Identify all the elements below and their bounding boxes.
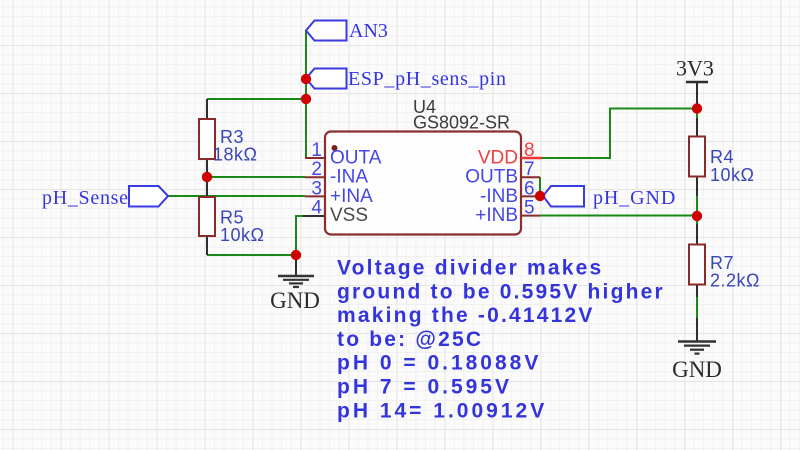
wire divider node segments (green): [696, 196, 698, 318]
svg-text:ESP_pH_sens_pin: ESP_pH_sens_pin: [348, 68, 507, 90]
svg-text:pH 7 = 0.595V: pH 7 = 0.595V: [337, 376, 512, 399]
svg-text:pH 0 = 0.18088V: pH 0 = 0.18088V: [337, 352, 541, 375]
pin number 1: [311, 140, 322, 161]
pin name VSS: [330, 205, 368, 226]
svg-text:ground to be 0.595V higher: ground to be 0.595V higher: [337, 280, 665, 303]
svg-text:GS8092-SR: GS8092-SR: [413, 113, 510, 133]
pin 6 stub: [521, 195, 540, 197]
pin number 5: [524, 198, 535, 219]
svg-text:+INB: +INB: [475, 205, 518, 226]
svg-text:2.2kΩ: 2.2kΩ: [710, 271, 760, 291]
svg-text:OUTB: OUTB: [465, 167, 518, 188]
wire black stub R3 bottom to node: [206, 159, 208, 177]
wire AN3 vertical drop to pin 1: [306, 31, 309, 158]
net flag pH_GND: [543, 186, 676, 209]
svg-text:AN3: AN3: [349, 20, 388, 42]
wire R3 top to AN3 net: [207, 98, 306, 100]
op-amp U4 pin-1 marker dot: [332, 145, 338, 151]
svg-text:-INB: -INB: [480, 186, 518, 207]
net flag AN3: [306, 20, 388, 42]
svg-text:GND: GND: [672, 357, 722, 382]
svg-text:10kΩ: 10kΩ: [220, 225, 264, 245]
svg-text:5: 5: [524, 198, 535, 219]
pin name +INB: [475, 205, 518, 226]
wire pH_Sense to pin 3: [168, 195, 305, 197]
svg-text:VSS: VSS: [330, 205, 368, 226]
svg-text:making the -0.41412V: making the -0.41412V: [337, 304, 595, 327]
junction 3V3 node: [692, 103, 702, 113]
svg-text:4: 4: [311, 198, 322, 219]
op-amp U1 body GS8092-SR: [325, 132, 521, 235]
svg-text:pH_GND: pH_GND: [593, 187, 676, 209]
svg-text:Voltage divider makes: Voltage divider makes: [337, 257, 603, 280]
svg-text:7: 7: [524, 159, 535, 180]
resistor R7: [689, 245, 760, 291]
pin 8 stub (red power): [521, 157, 542, 159]
wire black 3V3 to node: [696, 82, 698, 109]
junction R4/R7 divider node: [692, 211, 702, 221]
junction left GND node: [291, 250, 301, 260]
annotation note (blue text block): [337, 257, 665, 423]
svg-text:GND: GND: [270, 288, 320, 313]
svg-text:+INA: +INA: [330, 186, 373, 207]
svg-text:VDD: VDD: [478, 148, 518, 169]
wire black stub R5 bottom: [206, 236, 208, 255]
op-amp U4 reference label: [413, 97, 436, 117]
wire black stub R7 top: [696, 224, 698, 245]
pin 5 stub: [521, 215, 540, 217]
wire R3/R5 node to pin 2: [207, 176, 305, 178]
pin number 4: [311, 198, 322, 219]
pin number 6: [524, 178, 535, 199]
wire black stub pin 4 VSS: [303, 215, 325, 217]
junction R3/R5 divider node: [202, 172, 212, 182]
junction at ESP flag tap: [301, 74, 311, 84]
pin name VDD: [478, 148, 518, 169]
wire OUTB pin 7 to pin 6 junction: [539, 177, 541, 196]
svg-text:10kΩ: 10kΩ: [710, 165, 754, 185]
junction pin 6 / pH_GND: [535, 191, 545, 201]
svg-text:3: 3: [311, 178, 322, 199]
svg-text:1: 1: [311, 140, 322, 161]
junction at R3 top net: [301, 94, 311, 104]
op-amp U4 value label: [413, 113, 510, 133]
resistor R5: [199, 197, 264, 245]
svg-text:R4: R4: [710, 147, 734, 167]
net flag pH_Sense: [42, 186, 168, 209]
net flag ESP_pH_sens_pin: [306, 68, 507, 90]
wire VDD pin 8 to 3V3: [542, 109, 697, 159]
wire black stub R3 top: [206, 99, 208, 119]
svg-text:6: 6: [524, 178, 535, 199]
pin name -INB: [480, 186, 518, 207]
pin name OUTA: [330, 148, 382, 169]
pin 7 stub: [521, 176, 540, 178]
power symbol 3V3: [676, 56, 714, 83]
resistor R3: [199, 119, 257, 165]
pin number 7: [524, 159, 535, 180]
pin number 2: [311, 159, 322, 180]
resistor R4: [689, 137, 754, 186]
wire GND node up to pin 4: [296, 216, 303, 255]
wire black stub R4 bottom: [696, 177, 698, 196]
svg-text:3V3: 3V3: [676, 56, 714, 81]
pin 3 stub: [305, 195, 325, 197]
svg-text:pH_Sense: pH_Sense: [42, 187, 129, 209]
pin name +INA: [330, 186, 373, 207]
pin name OUTB: [465, 167, 518, 188]
svg-text:8: 8: [524, 140, 535, 161]
ground symbol right GND: [672, 342, 722, 383]
pin 2 stub: [305, 176, 325, 178]
pin name -INA: [330, 167, 368, 188]
pin number 8: [524, 140, 535, 161]
svg-text:18kΩ: 18kΩ: [213, 145, 257, 165]
pin 1 stub: [305, 157, 325, 159]
wire black stub R7 bottom: [696, 284, 698, 297]
wire black stub right GND: [696, 318, 698, 341]
svg-text:to be: @25C: to be: @25C: [337, 328, 483, 351]
svg-text:2: 2: [311, 159, 322, 180]
ground symbol left GND: [270, 276, 320, 313]
svg-text:-INA: -INA: [330, 167, 368, 188]
svg-text:pH 14= 1.00912V: pH 14= 1.00912V: [337, 399, 547, 422]
wire pin 5 to R4/R7 divider node: [540, 215, 697, 217]
wire black stub node to R5 top: [206, 177, 208, 197]
wire R5 bottom to GND node: [207, 254, 296, 256]
wire black stub R4 top: [696, 118, 698, 137]
wire black stub left GND: [295, 255, 297, 276]
svg-text:OUTA: OUTA: [330, 148, 382, 169]
pin number 3: [311, 178, 322, 199]
